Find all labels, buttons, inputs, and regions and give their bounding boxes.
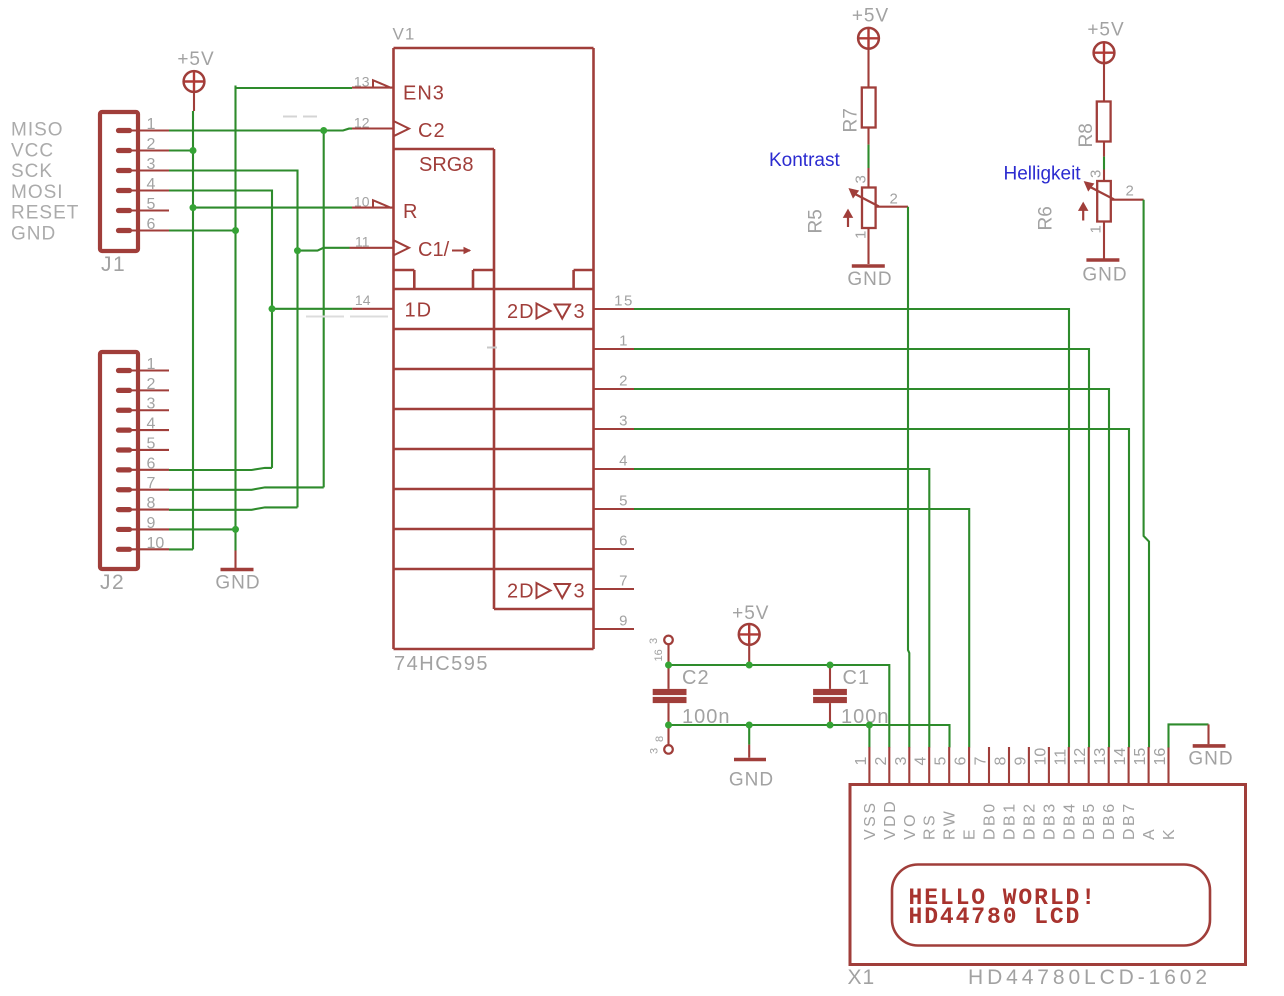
svg-text:+5V: +5V	[177, 49, 214, 70]
+5V supply symbol (left)	[184, 71, 205, 111]
connector J1 pin 4	[119, 188, 170, 193]
X1 pin 10 stub	[1048, 747, 1050, 785]
svg-text:GND: GND	[215, 573, 260, 594]
R6 wiper stub	[1110, 199, 1143, 201]
svg-text:2: 2	[619, 373, 629, 390]
display text line 1	[909, 885, 1097, 911]
connector J2 pin 1	[119, 368, 170, 373]
X1 pin 11 stub	[1068, 747, 1070, 785]
svg-text:RW: RW	[942, 809, 959, 840]
wire GND vertical and EN3 branch	[236, 86, 353, 551]
connector J2 pin 10	[119, 547, 170, 552]
V1 SRG8 inner box	[394, 149, 495, 609]
junction GND at J1.6	[232, 227, 239, 234]
svg-text:4: 4	[147, 416, 156, 433]
X1 pin name VDD	[882, 799, 899, 840]
V1 register table top edge	[394, 288, 594, 291]
J1 pin number 5	[147, 196, 156, 213]
X1 pin name K	[1161, 827, 1178, 840]
X1 pin name DB3	[1041, 801, 1058, 840]
X1 pin number 3	[893, 757, 910, 766]
X1 pin number 7	[973, 757, 990, 766]
svg-text:13: 13	[354, 74, 370, 90]
junction +5V rail at C2	[665, 662, 672, 669]
svg-text:3: 3	[147, 156, 156, 173]
R5 pot pin 1 number	[853, 231, 870, 239]
svg-text:E: E	[962, 827, 979, 840]
pin number 9	[619, 613, 629, 630]
connector J2 pin 7	[119, 487, 170, 492]
X1 pin number 6	[953, 757, 970, 766]
svg-text:8: 8	[654, 736, 666, 742]
svg-text:C1: C1	[843, 667, 871, 689]
V1 pin 10 stub	[352, 207, 394, 209]
pin number 1	[619, 333, 629, 350]
wire R8 to R6	[1103, 142, 1105, 181]
svg-text:3: 3	[1088, 170, 1105, 178]
wire +5V rail	[669, 665, 890, 748]
svg-text:3: 3	[574, 581, 585, 603]
junction +5V at J1.2	[190, 147, 197, 154]
X1 pin number 5	[933, 757, 950, 766]
svg-text:C2: C2	[682, 667, 710, 689]
svg-text:DB4: DB4	[1061, 801, 1078, 840]
J1 pin number 6	[147, 216, 156, 233]
V1 clock wedge C1	[394, 240, 410, 255]
pin number 10	[354, 194, 370, 210]
svg-text:DB2: DB2	[1021, 801, 1038, 840]
IC V1 outer box	[394, 48, 594, 649]
svg-text:2D: 2D	[507, 581, 535, 603]
junction +5V rail at C1	[827, 662, 834, 669]
svg-text:+5V: +5V	[1087, 20, 1124, 41]
resistor R7 body	[862, 88, 876, 128]
V1 input flag pin 13	[373, 80, 392, 88]
wire LCD K to ground	[1169, 724, 1209, 747]
V1 pin name 2D (row 1)	[507, 301, 585, 323]
wire R6 to ground	[1103, 221, 1105, 258]
X1 reference label	[848, 966, 876, 989]
svg-text:SCK: SCK	[11, 161, 53, 182]
svg-text:R5: R5	[806, 209, 827, 233]
X1 pin 14 stub	[1128, 747, 1130, 785]
X1 pin name E	[962, 827, 979, 840]
svg-text:4: 4	[913, 757, 930, 766]
net label RESET	[11, 203, 79, 224]
X1 pin 5 stub	[948, 747, 950, 785]
wire +5V to R8	[1103, 63, 1105, 101]
GND label (R6)	[1082, 265, 1127, 286]
svg-text:R8: R8	[1076, 123, 1097, 147]
svg-text:7: 7	[619, 573, 629, 590]
pin number 4	[619, 453, 629, 470]
X1 value HD44780LCD-1602	[968, 966, 1211, 989]
X1 pin number 11	[1052, 749, 1069, 766]
potentiometer R5 body	[844, 188, 879, 229]
V1 pin name C1/ shift arrow	[418, 239, 470, 261]
svg-text:GND: GND	[729, 770, 774, 791]
pin number 13	[354, 74, 370, 90]
pin number 14	[355, 292, 371, 308]
ground symbol (LCD)	[1193, 724, 1226, 746]
net label SCK	[11, 161, 53, 182]
svg-text:V1: V1	[393, 25, 416, 44]
GND label (R5)	[847, 269, 892, 290]
X1 pin name DB6	[1101, 801, 1118, 840]
svg-text:3: 3	[853, 175, 870, 183]
C2 supply pin label 8	[654, 736, 666, 742]
GND label (LCD)	[1188, 749, 1233, 770]
X1 pin number 15	[1132, 748, 1149, 766]
svg-text:EN3: EN3	[403, 83, 445, 105]
X1 pin number 12	[1072, 748, 1089, 766]
svg-text:GND: GND	[11, 224, 56, 245]
wire +5V to R7	[867, 49, 869, 87]
wire QD to LCD DB7	[634, 429, 1129, 748]
J2 pin number 1	[147, 356, 156, 373]
X1 pin number 13	[1092, 748, 1109, 766]
wire QC to LCD DB6	[634, 389, 1109, 748]
R8 reference label	[1076, 123, 1097, 147]
wire +5V J1 pin2 branch	[169, 149, 193, 151]
V1 pin 14 stub	[352, 308, 393, 310]
V1 input flag pin 10	[373, 200, 392, 208]
X1 display window	[892, 865, 1210, 946]
svg-text:C2: C2	[418, 120, 446, 142]
svg-text:DB6: DB6	[1101, 801, 1118, 840]
svg-text:16: 16	[1152, 748, 1169, 766]
svg-text:2: 2	[890, 191, 898, 208]
connector J1 pin 1	[119, 128, 170, 133]
svg-text:1: 1	[853, 757, 870, 766]
X1 pin name RS	[922, 813, 939, 840]
X1 pin 4 stub	[928, 747, 930, 785]
svg-text:DB3: DB3	[1041, 801, 1058, 840]
J2 pin number 3	[147, 396, 156, 413]
svg-text:R: R	[403, 201, 417, 223]
R6 pot pin 1 number	[1088, 225, 1105, 233]
+5V label (R7)	[852, 6, 889, 27]
wire Helligkeit to LCD A	[1144, 200, 1149, 748]
svg-text:HD44780 LCD: HD44780 LCD	[909, 904, 1082, 930]
J2 pin number 6	[147, 455, 156, 472]
svg-text:X1: X1	[848, 966, 876, 989]
connector J1 body	[100, 112, 138, 251]
ground symbol (R5)	[852, 264, 885, 268]
C2 value 100n	[682, 706, 731, 728]
ground symbol (J2)	[221, 551, 254, 570]
V1 output pin 1 stub	[594, 348, 635, 350]
junction SCK	[294, 247, 301, 254]
svg-text:GND: GND	[847, 269, 892, 290]
junction GND rail at C1	[827, 722, 834, 729]
+5V label (R8)	[1087, 20, 1124, 41]
svg-text:1: 1	[619, 333, 629, 350]
svg-text:8: 8	[147, 495, 156, 512]
svg-text:R7: R7	[841, 108, 862, 132]
svg-text:GND: GND	[1082, 265, 1127, 286]
svg-text:11: 11	[1052, 749, 1069, 766]
connector J2 pin 3	[119, 408, 170, 413]
svg-text:2: 2	[1126, 183, 1134, 200]
svg-text:9: 9	[147, 515, 156, 532]
R6 reference label	[1036, 206, 1057, 230]
J2 pin number 9	[147, 515, 156, 532]
V1 output pin 6 stub	[594, 548, 635, 550]
svg-text:3: 3	[147, 396, 156, 413]
X1 pin number 4	[913, 757, 930, 766]
X1 pin name A	[1141, 827, 1158, 840]
V1 output pin 7 stub	[594, 588, 635, 590]
svg-text:2: 2	[147, 376, 156, 393]
X1 pin 3 stub	[908, 747, 910, 785]
svg-text:6: 6	[147, 455, 156, 472]
V1 connecting necks	[414, 270, 573, 289]
net label GND	[11, 224, 56, 245]
wire GND J1 pin6 branch	[169, 229, 236, 231]
svg-text:11: 11	[355, 234, 370, 250]
svg-text:74HC595: 74HC595	[394, 653, 489, 675]
svg-text:RESET: RESET	[11, 203, 79, 224]
junction GND rail at C2	[665, 722, 672, 729]
connector J2 pin 5	[119, 447, 170, 452]
X1 pin name RW	[942, 809, 959, 840]
net label MISO	[11, 120, 64, 141]
svg-text:C1/: C1/	[418, 239, 450, 261]
V1 output pin 9 stub	[594, 628, 635, 630]
svg-text:9: 9	[1012, 757, 1029, 766]
svg-text:2D: 2D	[507, 301, 535, 323]
X1 pin 7 stub	[988, 747, 990, 785]
V1 pin name EN3	[403, 83, 445, 105]
junction GND rail at ground	[746, 722, 753, 729]
X1 pin 15 stub	[1148, 747, 1150, 785]
svg-text:10: 10	[147, 535, 165, 552]
J1 reference label	[101, 253, 126, 276]
svg-text:14: 14	[355, 292, 371, 308]
svg-text:DB0: DB0	[982, 801, 999, 840]
J2 pin number 2	[147, 376, 156, 393]
connector J1 pin 5	[119, 208, 170, 213]
svg-text:9: 9	[619, 613, 629, 630]
R6 pot pin 2 number	[1126, 183, 1134, 200]
X1 pin 12 stub	[1088, 747, 1090, 785]
C2 supply pin label 3b	[649, 748, 661, 754]
svg-text:2: 2	[147, 136, 156, 153]
X1 pin 6 stub	[968, 747, 970, 785]
V1 output pin 5 stub	[594, 508, 635, 510]
svg-text:5: 5	[147, 435, 156, 452]
V1 pin name R	[403, 201, 417, 223]
X1 pin number 16	[1152, 748, 1169, 766]
wire GND rail	[669, 725, 950, 748]
X1 pin name DB1	[1002, 801, 1019, 840]
svg-text:15: 15	[614, 293, 634, 310]
V1 pin name 2D (row 8)	[507, 581, 585, 603]
svg-text:1: 1	[853, 231, 870, 239]
resistor R8 body	[1097, 102, 1111, 142]
connector J2 pin 6	[119, 467, 170, 472]
svg-text:3: 3	[648, 638, 660, 644]
pin number 6	[619, 533, 629, 550]
svg-text:4: 4	[619, 453, 629, 470]
V1 pin 13 stub	[352, 87, 394, 89]
R6 pot pin 3 number	[1088, 170, 1105, 178]
svg-text:A: A	[1141, 827, 1158, 840]
svg-text:2: 2	[873, 757, 890, 766]
Helligkeit label	[1004, 164, 1082, 185]
capacitor C1	[813, 665, 847, 725]
X1 pin name DB4	[1061, 801, 1078, 840]
wire MOSI net	[169, 191, 352, 471]
GND label (capacitors)	[729, 770, 774, 791]
V1 output pin 15 stub	[594, 308, 635, 310]
pin number 11	[355, 234, 370, 250]
X1 pin number 8	[993, 757, 1010, 766]
J2 reference label	[100, 571, 125, 594]
wire MISO net	[169, 129, 352, 490]
connector J2 pin 4	[119, 428, 170, 433]
svg-text:15: 15	[1132, 748, 1149, 766]
svg-text:5: 5	[933, 757, 950, 766]
svg-text:MOSI: MOSI	[11, 182, 64, 203]
svg-text:12: 12	[1072, 748, 1089, 766]
svg-text:J1: J1	[101, 253, 126, 276]
svg-text:8: 8	[993, 757, 1010, 766]
net label MOSI	[11, 182, 64, 203]
J1 pin number 2	[147, 136, 156, 153]
connector J1 pin 2	[119, 148, 170, 153]
svg-text:DB1: DB1	[1002, 801, 1019, 840]
X1 pin name VO	[902, 812, 919, 840]
R7 reference label	[841, 108, 862, 132]
svg-text:7: 7	[147, 475, 156, 492]
svg-text:3: 3	[574, 301, 585, 323]
+5V supply symbol (capacitors)	[739, 624, 760, 662]
svg-text:Kontrast: Kontrast	[769, 150, 840, 171]
ground symbol (R6)	[1086, 258, 1119, 262]
svg-text:3: 3	[893, 757, 910, 766]
potentiometer R6 body	[1079, 181, 1114, 222]
wire QE to LCD RS	[634, 469, 929, 748]
V1 pin name C2	[418, 120, 446, 142]
node ghost mark A	[283, 116, 317, 118]
C1 value 100n	[841, 706, 890, 728]
J2 pin number 7	[147, 475, 156, 492]
junction GND at J2.9	[232, 526, 239, 533]
C2 reference label	[682, 667, 710, 689]
wire R7 to R5	[867, 128, 869, 187]
svg-text:10: 10	[1032, 748, 1049, 766]
svg-text:1: 1	[147, 356, 156, 373]
svg-text:SRG8: SRG8	[419, 154, 473, 176]
J2 pin number 10	[147, 535, 165, 552]
+5V supply symbol (R8)	[1094, 42, 1115, 63]
svg-text:1D: 1D	[405, 300, 433, 322]
C2 supply pin label 16	[653, 649, 665, 661]
connector J2 pin 9	[119, 527, 170, 532]
svg-text:6: 6	[619, 533, 629, 550]
V1 pin 11 stub	[350, 247, 394, 249]
svg-text:100n: 100n	[682, 706, 731, 728]
svg-text:5: 5	[147, 196, 156, 213]
wire QF to LCD E	[634, 509, 969, 748]
svg-text:+5V: +5V	[852, 6, 889, 27]
pin number 7	[619, 573, 629, 590]
svg-text:13: 13	[1092, 748, 1109, 766]
X1 pin name DB7	[1121, 801, 1138, 840]
wire QA to LCD DB4	[634, 309, 1069, 748]
svg-text:16: 16	[653, 649, 665, 661]
svg-text:DB5: DB5	[1081, 801, 1098, 840]
svg-text:RS: RS	[922, 813, 939, 840]
svg-text:6: 6	[147, 216, 156, 233]
X1 pin 13 stub	[1108, 747, 1110, 785]
R5 wiper stub	[876, 206, 908, 208]
pin number 12	[354, 115, 370, 131]
X1 pin 2 stub	[888, 747, 890, 785]
capacitor C2	[653, 636, 687, 725]
X1 pin name DB0	[982, 801, 999, 840]
C2 supply pin label 3	[648, 638, 660, 644]
svg-text:Helligkeit: Helligkeit	[1004, 164, 1082, 185]
X1 pin name VSS	[862, 800, 879, 840]
svg-text:VSS: VSS	[862, 800, 879, 840]
V1 label SRG8	[419, 154, 473, 176]
V1 pin name 1D	[405, 300, 433, 322]
svg-text:6: 6	[953, 757, 970, 766]
svg-text:R6: R6	[1036, 206, 1057, 230]
svg-text:5: 5	[619, 493, 629, 510]
svg-text:+5V: +5V	[732, 603, 769, 624]
wire SCK net	[169, 171, 350, 510]
node ghost mark C	[306, 316, 388, 318]
X1 pin name DB2	[1021, 801, 1038, 840]
module X1 body	[850, 785, 1246, 965]
X1 pin number 2	[873, 757, 890, 766]
node ghost mark B	[487, 347, 497, 349]
V1 pin 12 stub	[352, 127, 394, 129]
+5V supply symbol (R7)	[858, 28, 879, 49]
pin number 3	[619, 413, 629, 430]
junction +5V at R branch	[190, 204, 197, 211]
connector J2 pin 8	[119, 507, 170, 512]
X1 pin 9 stub	[1028, 747, 1030, 785]
J1 pin number 4	[147, 176, 156, 193]
V1 output pin 4 stub	[594, 468, 635, 470]
X1 pin 16 stub	[1167, 747, 1169, 785]
svg-text:J2: J2	[100, 571, 125, 594]
V1 clock wedge C2	[394, 121, 410, 136]
V1 reference label	[393, 25, 416, 44]
junction MOSI	[269, 305, 276, 312]
ground symbol (capacitors)	[734, 725, 766, 760]
J2 pin number 5	[147, 435, 156, 452]
V1 output pin 2 stub	[594, 388, 635, 390]
R5 pot pin 3 number	[853, 175, 870, 183]
wire QB to LCD DB5	[634, 349, 1089, 748]
svg-text:1: 1	[1088, 225, 1105, 233]
GND label (J2)	[215, 573, 260, 594]
wire GND rail to LCD VSS	[868, 725, 870, 748]
wire +5V vertical (J1.2/J2.10)	[169, 111, 193, 549]
+5V label (capacitors)	[732, 603, 769, 624]
net label VCC	[11, 140, 54, 161]
X1 pin 8 stub	[1008, 747, 1010, 785]
X1 pin number 9	[1012, 757, 1029, 766]
svg-text:DB7: DB7	[1121, 801, 1138, 840]
connector J1 pin 3	[119, 168, 170, 173]
